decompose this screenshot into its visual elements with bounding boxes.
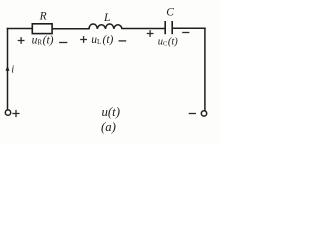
- label + of uL: [80, 36, 87, 43]
- wire capacitor-to-corner: [173, 27, 206, 29]
- label - of uC: [182, 32, 189, 34]
- capacitor C plate right: [171, 21, 173, 34]
- svg-text:uR(t): uR(t): [32, 35, 54, 47]
- label + of uC: [147, 30, 154, 37]
- svg-text:R: R: [39, 11, 47, 23]
- svg-text:L: L: [103, 12, 110, 24]
- svg-text:u(t): u(t): [102, 105, 120, 119]
- wire top-left segment: [8, 28, 33, 30]
- wire right vertical: [204, 28, 206, 110]
- polarity + at left terminal: [12, 110, 19, 117]
- svg-text:(a): (a): [101, 120, 116, 134]
- wire resistor-to-inductor: [53, 28, 90, 30]
- current arrow i: [6, 66, 10, 71]
- node terminal + left: [5, 110, 10, 115]
- svg-text:uL(t): uL(t): [91, 34, 113, 46]
- capacitor C plate left: [164, 21, 166, 34]
- inductor L: [89, 24, 122, 29]
- label - of uR: [59, 42, 67, 44]
- node terminal - right: [201, 111, 206, 116]
- svg-text:C: C: [166, 7, 174, 19]
- svg-text:i: i: [11, 65, 14, 76]
- wire left vertical: [7, 29, 9, 110]
- label - of uL: [119, 40, 127, 42]
- resistor R: [32, 24, 52, 34]
- label + of uR: [18, 37, 25, 44]
- polarity - at right terminal: [189, 113, 196, 115]
- svg-text:uC(t): uC(t): [158, 36, 179, 47]
- wire inductor-to-capacitor: [122, 28, 165, 30]
